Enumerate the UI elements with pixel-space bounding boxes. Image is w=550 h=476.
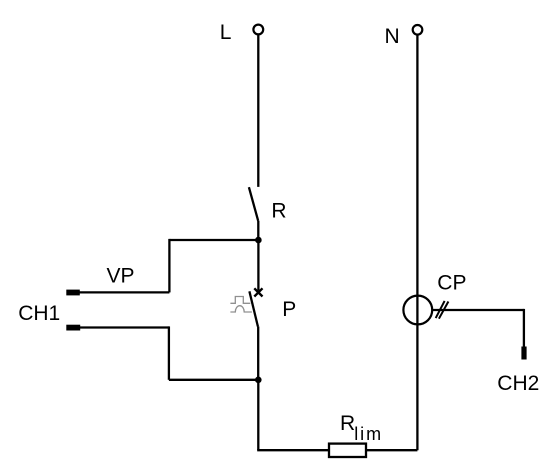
switch R blade <box>249 187 258 221</box>
wire L to switch R <box>257 35 259 187</box>
svg-text:CH2: CH2 <box>497 372 539 395</box>
wire CH1 horizontal <box>80 326 169 328</box>
wire bottom left horizontal <box>257 449 329 451</box>
terminal N <box>413 25 423 35</box>
wire CH2 vertical <box>523 309 525 347</box>
switch P pulse symbol <box>230 297 252 313</box>
wire CP output horizontal <box>432 309 524 311</box>
wire node A to switch P <box>257 240 259 291</box>
svg-text:N: N <box>385 25 400 48</box>
CH2 probe tip <box>521 347 526 360</box>
svg-text:CP: CP <box>437 272 466 295</box>
svg-text:CH1: CH1 <box>18 302 60 325</box>
wire switch R to node A <box>257 221 259 240</box>
wire switch P to node B <box>257 327 259 380</box>
svg-text:lim: lim <box>354 424 383 444</box>
resistor Rlim <box>329 444 366 457</box>
CP double slash <box>436 301 449 319</box>
wire VP vertical <box>168 239 170 293</box>
node A junction dot <box>255 237 262 244</box>
wire N vertical <box>416 35 418 451</box>
svg-text:VP: VP <box>107 265 135 288</box>
wire to node B <box>169 379 258 381</box>
svg-text:P: P <box>282 298 296 321</box>
svg-text:R: R <box>271 200 286 223</box>
wire node A left <box>169 239 258 241</box>
svg-text:L: L <box>220 21 232 44</box>
switch P blade <box>249 291 258 326</box>
VP probe tip <box>66 290 80 296</box>
node B junction dot <box>255 377 262 384</box>
wire CH1 vertical <box>168 326 170 379</box>
wire node B down <box>257 380 259 450</box>
terminal L <box>253 25 263 35</box>
current probe CP circle <box>403 296 432 325</box>
wire resistor to N branch <box>366 449 417 451</box>
svg-text:R: R <box>340 412 355 435</box>
CH1 probe tip <box>66 325 80 331</box>
switch P contact cross <box>254 288 262 296</box>
wire VP horizontal <box>79 291 169 293</box>
